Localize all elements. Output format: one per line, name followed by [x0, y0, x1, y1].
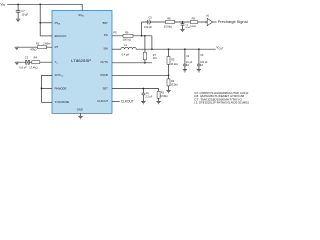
wire VIN rail — [7, 4, 82, 10]
svg-text:C5: C5 — [148, 15, 152, 19]
svg-text:0.4 µH: 0.4 µH — [122, 52, 130, 56]
wire PG — [112, 35, 152, 37]
node VIN junction 1 — [17, 3, 19, 5]
wire SW — [112, 48, 121, 50]
capacitor C7 — [16, 4, 21, 19]
svg-text:CLKOUT: CLKOUT — [121, 100, 134, 104]
inductor L1 — [121, 47, 136, 49]
wire PGFB — [112, 74, 169, 76]
capacitor C8 — [197, 49, 201, 69]
svg-text:CLKOUT: CLKOUT — [97, 99, 108, 103]
resistor R4 — [32, 61, 40, 64]
ground (C8) — [197, 70, 201, 72]
op-amp A1 — [207, 18, 212, 25]
op-amp U1 LT8625SP body — [52, 11, 112, 114]
node PG riser junction — [141, 35, 143, 37]
wire RT — [17, 46, 52, 48]
svg-text:×2: ×2 — [200, 64, 203, 67]
svg-text:10 µF: 10 µF — [21, 12, 28, 16]
svg-text:PGFB: PGFB — [100, 73, 108, 77]
node C4 junction — [182, 21, 184, 23]
svg-text:R9: R9 — [192, 16, 196, 20]
svg-text:R1: R1 — [36, 42, 40, 46]
resistor R1 — [38, 46, 47, 49]
node PHMODE junction — [41, 88, 43, 90]
capacitor C5 — [147, 20, 150, 25]
ground (RT) — [15, 47, 19, 49]
resistor R7 — [143, 36, 146, 63]
resistor R3 — [157, 89, 160, 102]
resistor R8 — [166, 21, 175, 24]
capacitor C4 — [181, 22, 185, 29]
svg-text:PG: PG — [104, 33, 108, 37]
svg-text:C3: C3 — [25, 56, 29, 60]
wire INTVCC — [42, 75, 53, 102]
node VIN junction 2 — [39, 3, 41, 5]
wire A1 output — [213, 21, 217, 23]
svg-text:GND: GND — [77, 108, 83, 112]
node FB — [168, 74, 170, 76]
svg-text:Precharge Signal: Precharge Signal — [218, 20, 248, 24]
svg-text:RT: RT — [55, 45, 59, 49]
svg-text:100 pF: 100 pF — [144, 25, 152, 29]
ground (R2) — [166, 90, 170, 92]
svg-text:SET: SET — [103, 87, 109, 91]
ground (R3) — [156, 101, 160, 103]
svg-text:×4: ×4 — [186, 64, 189, 67]
svg-text:A1: A1 — [206, 14, 210, 18]
svg-text:2 MHz: 2 MHz — [43, 42, 51, 46]
wire SET — [112, 88, 159, 90]
svg-text:PHMODE: PHMODE — [55, 86, 67, 90]
wire EN/UVLO — [40, 35, 52, 37]
svg-text:17.4kΩ: 17.4kΩ — [29, 65, 37, 69]
wire PG to VOUT — [151, 36, 153, 49]
svg-text:9.53kΩ: 9.53kΩ — [160, 95, 168, 98]
resistor R6 — [123, 34, 133, 37]
svg-text:LT8625SP: LT8625SP — [71, 59, 92, 63]
svg-text:C8: C8 — [200, 54, 204, 57]
svg-text:43.2kΩ: 43.2kΩ — [171, 63, 179, 66]
svg-text:1 kΩ: 1 kΩ — [190, 24, 195, 28]
resistor R5 — [167, 49, 170, 75]
wire CLKOUT stub — [112, 101, 120, 103]
node PVIN tee — [39, 22, 41, 24]
wire precharge chain — [142, 21, 205, 23]
capacitor C2 — [183, 49, 187, 69]
node R7 top junction — [144, 35, 146, 37]
capacitor C3 — [26, 60, 30, 64]
wire OUTS — [112, 62, 152, 64]
svg-text:100 kΩ: 100 kΩ — [123, 38, 131, 42]
wire PVIN — [39, 4, 41, 36]
node C2 tap — [184, 48, 186, 50]
resistor R9 — [190, 21, 197, 24]
resistor R2 — [167, 75, 170, 90]
svg-text:R5: R5 — [171, 59, 175, 62]
ground (C7) — [16, 19, 20, 21]
op-amp U1 pin labels — [55, 13, 109, 111]
svg-text:VIN: VIN — [0, 3, 5, 8]
svg-text:2.2 µF: 2.2 µF — [146, 96, 153, 99]
svg-text:SYNC/MODE: SYNC/MODE — [55, 100, 69, 104]
wire PHMODE — [42, 87, 53, 89]
ground (C2) — [183, 70, 187, 72]
ground (C4) — [180, 29, 184, 31]
svg-text:SW: SW — [103, 47, 108, 51]
svg-text:OUTS: OUTS — [100, 60, 108, 64]
note BOM text — [194, 92, 249, 105]
svg-text:47kΩ: 47kΩ — [30, 48, 36, 52]
svg-text:R6: R6 — [125, 30, 129, 34]
svg-text:R8: R8 — [167, 16, 171, 20]
svg-text:53.6kΩ: 53.6kΩ — [164, 24, 172, 28]
ground (IC GND) — [78, 113, 82, 118]
svg-text:10.2kΩ: 10.2kΩ — [170, 83, 178, 86]
svg-text:BST: BST — [103, 21, 109, 25]
svg-text:PG: PG — [113, 31, 117, 35]
wire VOUT rail — [136, 48, 216, 50]
capacitor C1 — [142, 89, 146, 102]
svg-text:C2: C2 — [186, 55, 190, 58]
node OUTS junction — [144, 62, 146, 64]
wire SYNC/MODE — [42, 101, 53, 103]
svg-text:R4: R4 — [34, 56, 38, 60]
node C1 tee — [143, 88, 145, 90]
svg-text:VOUT: VOUT — [216, 46, 224, 51]
node C8 tap — [198, 48, 200, 50]
node A1 input — [205, 21, 207, 23]
svg-text:1kΩ: 1kΩ — [153, 57, 158, 60]
ground (C1) — [141, 101, 145, 103]
node R5 tap — [168, 48, 170, 50]
ground (TC) — [15, 62, 19, 64]
svg-text:C1: C1 — [146, 92, 150, 95]
wire PG riser — [141, 22, 143, 36]
node PG pullup on rail — [151, 48, 153, 50]
svg-text:L1: L1 — [124, 43, 127, 47]
svg-text:L1: DFE252012F-R47M/XGL4020-20: L1: DFE252012F-R47M/XGL4020-201MES — [194, 102, 249, 105]
svg-text:6.8 nF: 6.8 nF — [19, 65, 27, 69]
wire TC — [17, 61, 52, 63]
svg-text:EN/UVLO: EN/UVLO — [55, 34, 67, 38]
